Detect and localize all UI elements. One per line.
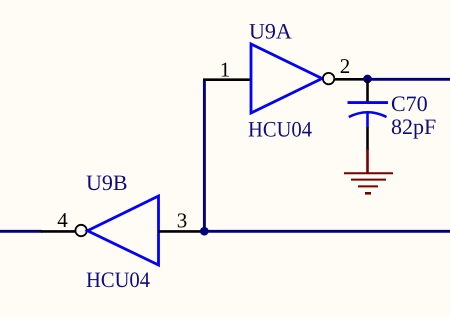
junction dot at U9A output node bbox=[363, 75, 372, 84]
wire: vertical net from U9A pin1 down to node at U9B pin3 bbox=[203, 80, 206, 232]
ground symbol bar 1 bbox=[344, 172, 393, 174]
capacitor C70 top plate bbox=[348, 101, 389, 104]
capacitor C70 curved bottom plate bbox=[349, 112, 387, 117]
pin 2 of U9A (black stub) bbox=[334, 78, 368, 81]
ground symbol bar 3 bbox=[358, 185, 378, 187]
ground symbol bar 4 bbox=[365, 192, 371, 195]
wire: black segment below C70 bbox=[366, 128, 369, 151]
pin number 3 bbox=[178, 213, 187, 227]
wire: net from node to right edge bbox=[205, 230, 450, 233]
designator U9B bbox=[86, 175, 126, 190]
pin 4 of U9B (black stub) bbox=[41, 230, 75, 233]
ground symbol bar 2 bbox=[351, 179, 386, 181]
wire: black drop from node to C70 top plate bbox=[366, 79, 369, 101]
pin number 2 bbox=[341, 59, 349, 73]
inverter U9B output bubble bbox=[75, 225, 86, 236]
value label 82pF bbox=[392, 119, 436, 138]
pin number 1 bbox=[222, 63, 229, 77]
wire: dark red segment to ground bbox=[366, 149, 369, 173]
inverter U9A (triangle body) bbox=[251, 44, 322, 113]
inverter U9B (triangle body) bbox=[88, 196, 159, 265]
junction dot at U9B input node bbox=[200, 227, 209, 236]
pin 3 of U9B (black stub) bbox=[159, 230, 205, 233]
designator C70 bbox=[392, 96, 427, 111]
wire: net from U9A output to right edge bbox=[368, 78, 450, 81]
designator U9A bbox=[249, 24, 291, 39]
value label HCU04 (U9B) bbox=[87, 272, 150, 287]
value label HCU04 (U9A) bbox=[249, 122, 312, 137]
inverter U9A output bubble bbox=[323, 73, 334, 84]
pin number 4 bbox=[58, 213, 68, 227]
pin 1 of U9A (black stub) bbox=[203, 78, 251, 81]
capacitor C70 lower lead (blue) bbox=[366, 112, 369, 128]
wire: net from left edge to U9B output bbox=[0, 230, 42, 233]
